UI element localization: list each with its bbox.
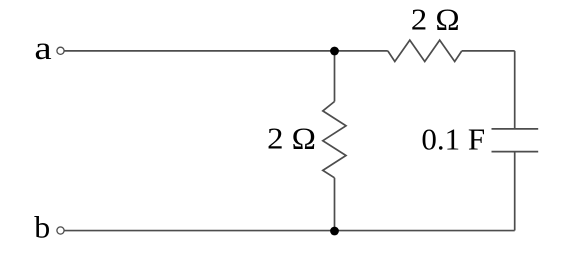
- svg-text:b: b: [34, 210, 50, 244]
- svg-text:2 Ω: 2 Ω: [411, 2, 460, 36]
- svg-text:a: a: [34, 30, 51, 67]
- svg-text:2 Ω: 2 Ω: [267, 121, 316, 155]
- svg-text:0.1 F: 0.1 F: [421, 121, 485, 156]
